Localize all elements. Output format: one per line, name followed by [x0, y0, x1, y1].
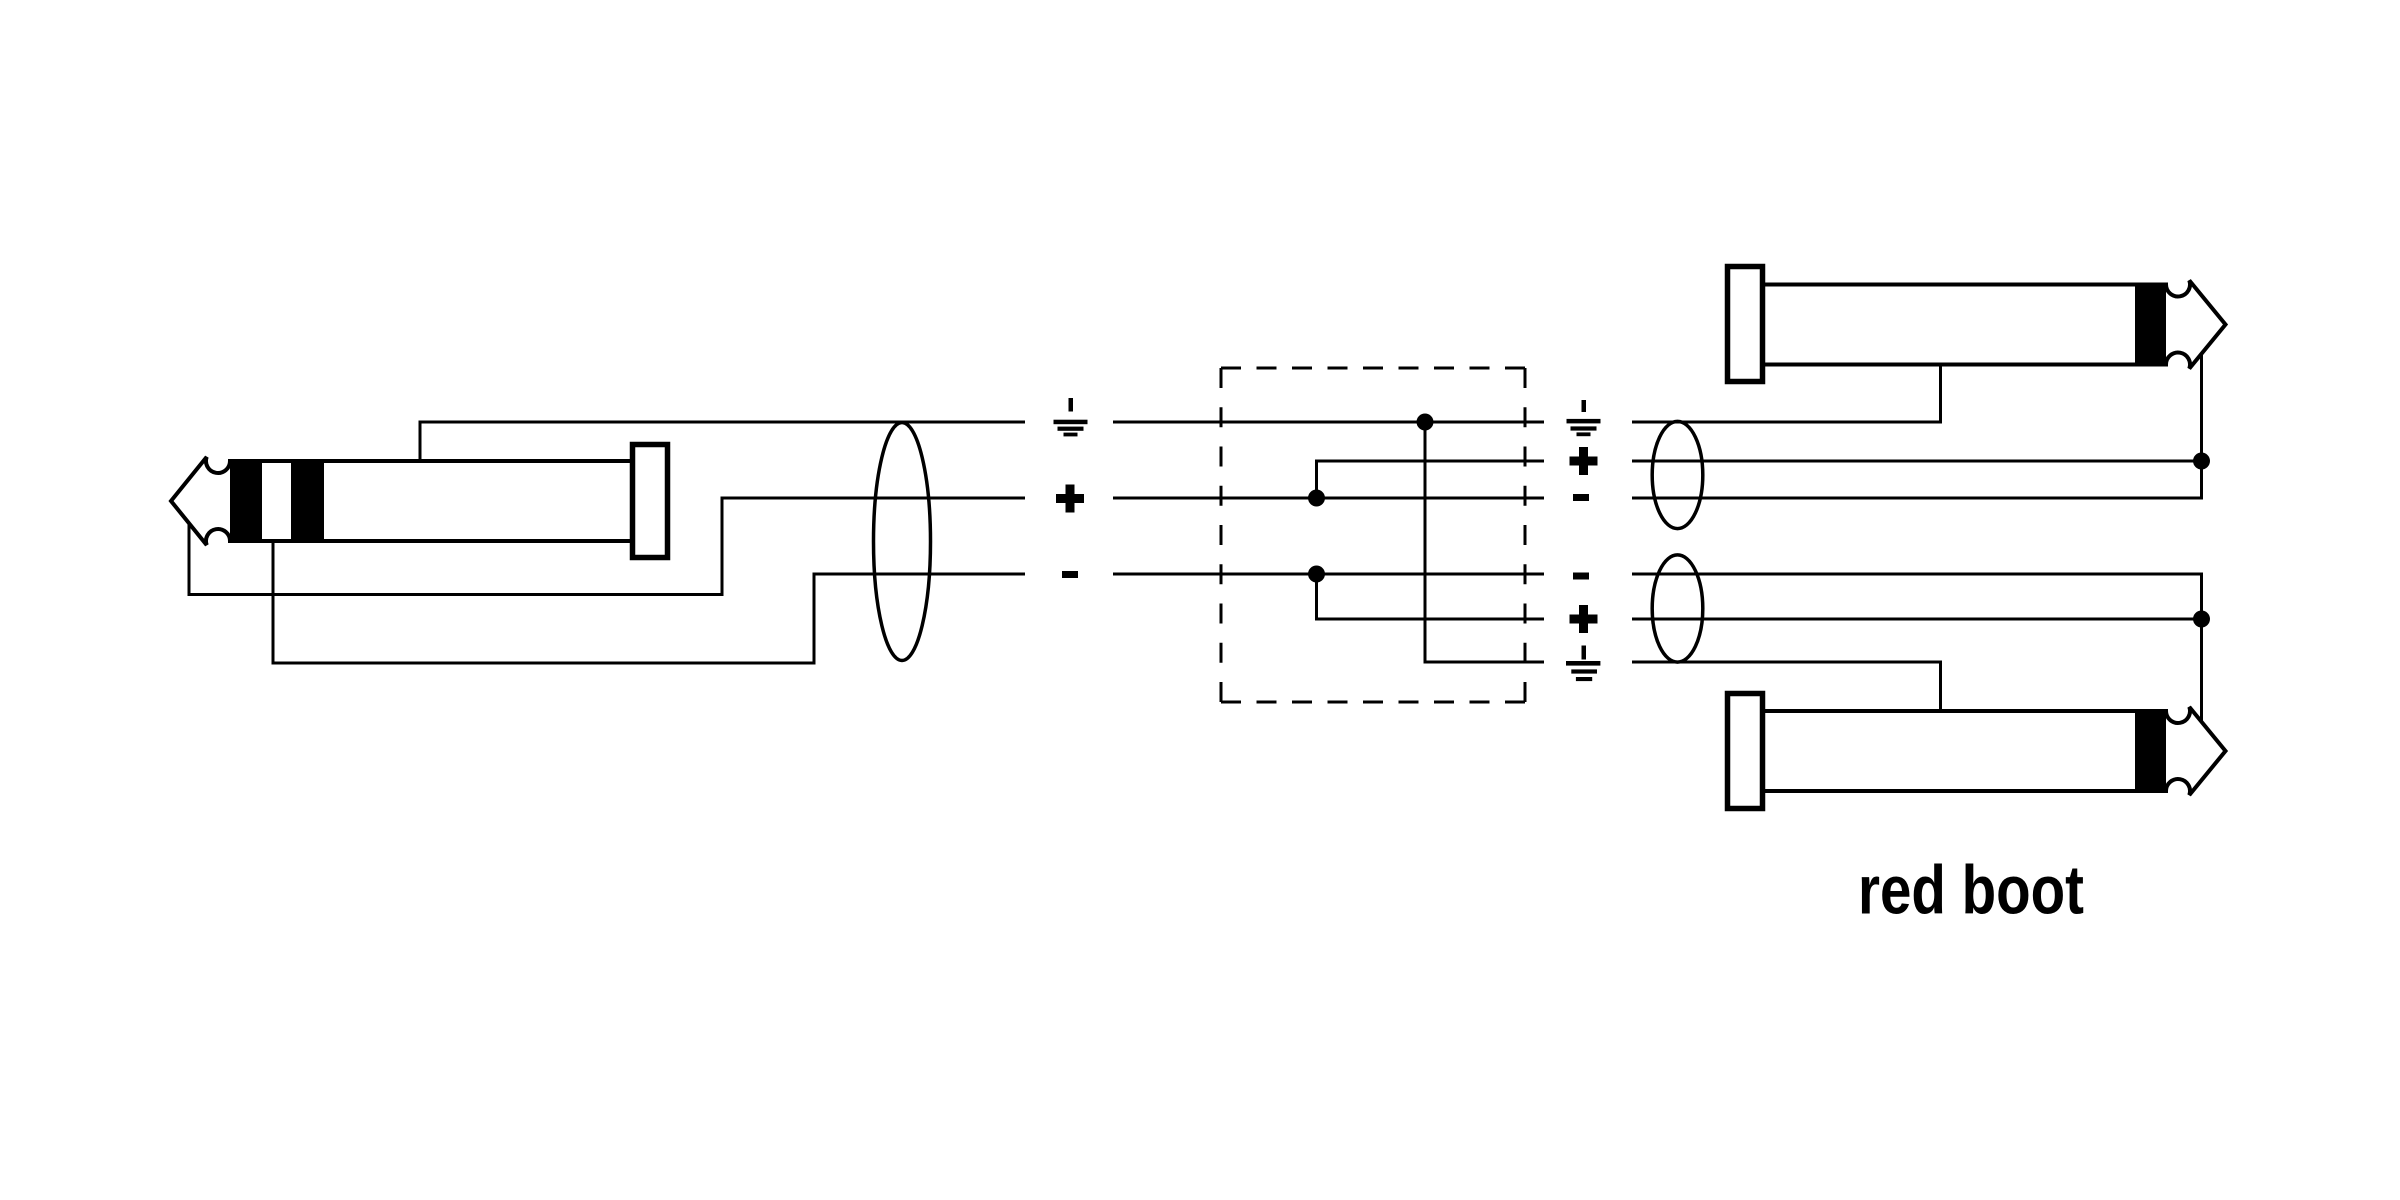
ground symbol right bottom	[1566, 646, 1600, 682]
mono TS jack plug top right	[1728, 267, 2226, 382]
tip insulator band	[230, 459, 262, 543]
mono TS jack plug bottom right	[1728, 694, 2226, 809]
wire plus to top plug	[1632, 460, 2202, 463]
ring insulator band	[291, 459, 324, 543]
junction dot bottom plug plus	[2193, 611, 2210, 628]
wire shield to bottom plug sleeve	[1632, 662, 1941, 712]
ground symbol right top	[1567, 400, 1601, 436]
plus symbol right top	[1570, 447, 1598, 475]
wire plus from left plug tip	[189, 498, 1025, 595]
plug collar	[1728, 267, 1763, 382]
tip insulator band	[2135, 709, 2166, 793]
cable ellipse left	[874, 423, 931, 661]
cable ellipse right bottom	[1652, 555, 1703, 662]
wire crossover top branch	[1317, 461, 1545, 498]
tip insulator band	[2135, 283, 2166, 367]
wire plus to bottom plug	[1632, 618, 2202, 621]
wire minus from left plug ring	[273, 540, 1025, 663]
plug body and tip outline	[1763, 707, 2226, 795]
svg-text:red boot: red boot	[1858, 852, 2084, 929]
minus symbol right top	[1573, 494, 1589, 501]
ground symbol left	[1054, 398, 1088, 436]
plug body and tip outline	[171, 457, 632, 545]
wire plus row into junction box	[1113, 497, 1544, 500]
plug collar	[633, 445, 668, 558]
wire crossover bottom branch	[1317, 574, 1545, 619]
wire shield from left plug sleeve	[420, 422, 1025, 460]
junction dot on minus row	[1308, 566, 1325, 583]
minus symbol left	[1062, 571, 1078, 578]
plug collar	[1728, 694, 1763, 809]
plug body and tip outline	[1763, 280, 2226, 368]
junction dot top plug plus	[2193, 453, 2210, 470]
junction dot on shield row	[1417, 414, 1434, 431]
wire shield to top plug sleeve	[1632, 363, 1941, 422]
stereo TRS jack plug left	[171, 445, 668, 558]
wire minus to top plug tip	[1632, 352, 2202, 498]
cable ellipse right top	[1652, 421, 1703, 528]
plus symbol left	[1056, 485, 1084, 513]
plus symbol right bottom	[1570, 605, 1598, 633]
dashed junction box	[1221, 368, 1525, 702]
wire minus to bottom plug tip	[1632, 574, 2202, 724]
wire shield branch to lower channel	[1425, 422, 1544, 662]
minus symbol right bottom	[1573, 573, 1589, 580]
wire minus row into junction box	[1113, 573, 1544, 576]
wire shield row into junction box	[1113, 421, 1544, 424]
junction dot on plus row	[1308, 490, 1325, 507]
